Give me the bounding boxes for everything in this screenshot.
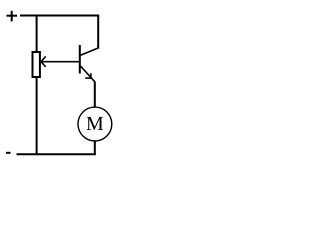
wire bottom rail xyxy=(17,153,96,155)
wire collector to top rail xyxy=(97,16,99,49)
wire left branch lower xyxy=(36,77,38,155)
minus terminal label - xyxy=(6,152,11,154)
wire motor to bottom rail xyxy=(94,141,96,155)
motor M1 label M xyxy=(87,117,104,130)
wire left branch upper xyxy=(36,16,38,53)
wire top rail xyxy=(20,15,99,17)
motor M1 circle xyxy=(78,107,112,141)
transistor Q1 base bar xyxy=(79,45,81,74)
plus terminal label + xyxy=(7,11,18,22)
transistor Q1 collector lead xyxy=(81,48,99,55)
transistor Q1 emitter lead xyxy=(81,66,95,82)
potentiometer wiper arrow xyxy=(41,56,80,66)
potentiometer R1 body xyxy=(33,52,40,77)
wire emitter to motor xyxy=(94,82,96,108)
transistor Q1 emitter arrowhead xyxy=(85,73,91,78)
